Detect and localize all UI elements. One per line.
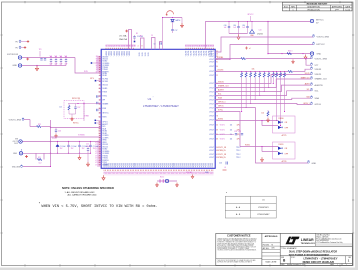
svg-text:UTRIM_8%: UTRIM_8%	[218, 157, 226, 159]
svg-text:80: 80	[99, 92, 101, 94]
svg-text:VOUT: VOUT	[209, 71, 214, 73]
svg-text:R22: R22	[38, 124, 41, 126]
svg-text:C1 10uF: C1 10uF	[60, 146, 66, 148]
svg-text:84: 84	[96, 65, 98, 67]
svg-text:79: 79	[99, 153, 101, 155]
svg-text:34: 34	[216, 66, 218, 68]
svg-text:C17: C17	[175, 30, 178, 32]
svg-text:VDD33: VDD33	[124, 51, 126, 56]
svg-text:WHEN VIN < 5.75V, SHORT INTVCC: WHEN VIN < 5.75V, SHORT INTVCC TO VIN WI…	[42, 204, 158, 208]
svg-text:VOUT: VOUT	[209, 120, 214, 122]
svg-text:84: 84	[99, 131, 101, 133]
svg-text:SHARE_CLK: SHARE_CLK	[315, 78, 328, 81]
svg-text:84: 84	[99, 124, 101, 126]
svg-text:VOUT: VOUT	[209, 154, 214, 156]
svg-text:RUN1: RUN1	[102, 75, 107, 77]
svg-text:5 1 0 2 7 5 4 6 8 3 1 9: 5 1 0 2 7 5 4 6 8 3 1 9	[106, 46, 136, 48]
svg-text:VOUT0: VOUT0	[198, 51, 200, 56]
svg-text:CUSTOMER NOTICE: CUSTOMER NOTICE	[227, 235, 251, 238]
svg-text:8: 8	[99, 75, 100, 77]
svg-text:C26: C26	[58, 131, 61, 133]
svg-text:1uF: 1uF	[233, 27, 236, 29]
svg-text:C1 10uF: C1 10uF	[71, 146, 77, 148]
svg-text:VOUT0: VOUT0	[186, 51, 188, 56]
svg-text:REVISION HISTORY: REVISION HISTORY	[307, 4, 328, 6]
svg-text:93: 93	[96, 58, 98, 60]
svg-text:VOUT: VOUT	[209, 150, 214, 152]
svg-text:90: 90	[99, 117, 101, 119]
svg-text:69: 69	[216, 130, 218, 132]
svg-text:10k: 10k	[230, 130, 233, 132]
svg-text:1uF: 1uF	[224, 27, 227, 29]
svg-text:VDD33: VDD33	[129, 51, 131, 56]
svg-text:83: 83	[99, 128, 101, 130]
svg-text:TP1: TP1	[15, 47, 18, 49]
svg-text:C1 10uF: C1 10uF	[93, 146, 99, 148]
svg-text:C15: C15	[59, 107, 62, 109]
svg-text:*: *	[39, 202, 41, 206]
svg-text:91: 91	[216, 62, 218, 64]
svg-text:10k: 10k	[261, 113, 264, 115]
svg-text:10k: 10k	[230, 139, 233, 141]
svg-text:VDD33: VDD33	[218, 70, 224, 72]
svg-text:63: 63	[99, 79, 101, 81]
svg-text:8: 8	[142, 46, 143, 48]
svg-text:SGND: SGND	[102, 88, 108, 90]
svg-text:VOUT1_SNS: VOUT1_SNS	[315, 58, 328, 60]
svg-text:SCL: SCL	[218, 94, 222, 96]
svg-text:GPIO1: GPIO1	[218, 106, 224, 108]
svg-text:APPROVED: APPROVED	[332, 5, 343, 8]
svg-text:A TP5: A TP5	[282, 134, 287, 137]
svg-text:VDD25: VDD25	[102, 85, 108, 87]
svg-text:Fax: (408)434-0507: Fax: (408)434-0507	[316, 240, 329, 242]
svg-text:GND_SNS: GND_SNS	[12, 166, 21, 168]
svg-text:RCFG1: RCFG1	[102, 81, 108, 83]
svg-text:21: 21	[99, 88, 101, 90]
svg-text:VDD33: VDD33	[121, 51, 123, 56]
svg-text:C40: C40	[242, 25, 245, 27]
svg-text:60: 60	[99, 58, 101, 60]
svg-text:ALERTB: ALERTB	[315, 84, 324, 87]
svg-text:U1: U1	[148, 97, 152, 101]
svg-text:17: 17	[99, 100, 101, 102]
svg-text:VDD33: VDD33	[116, 51, 118, 56]
svg-text:35V: 35V	[71, 148, 74, 150]
svg-text:GND: GND	[13, 153, 18, 155]
svg-text:VOUT: VOUT	[209, 116, 214, 118]
svg-text:90: 90	[99, 122, 101, 124]
svg-text:a2: a2	[249, 48, 251, 50]
svg-text:VDD33: VDD33	[315, 69, 323, 71]
svg-text:VOUT: VOUT	[209, 147, 214, 149]
svg-text:LINEAR: LINEAR	[301, 238, 314, 242]
svg-text:IC NO.: IC NO.	[291, 257, 296, 259]
svg-text:VOUT: VOUT	[209, 134, 214, 136]
svg-text:R5: R5	[136, 33, 138, 35]
svg-text:R5A C5A: R5A C5A	[119, 38, 127, 41]
svg-text:23: 23	[216, 54, 218, 56]
svg-text:ECO: ECO	[284, 6, 288, 8]
svg-text:C40: C40	[233, 25, 236, 27]
svg-text:68: 68	[216, 139, 218, 141]
svg-text:VOUT: VOUT	[209, 139, 214, 141]
svg-text:VOSNS0: VOSNS0	[78, 135, 85, 137]
svg-text:R8* 0: R8* 0	[90, 78, 94, 80]
svg-text:VTRIM: VTRIM	[84, 116, 89, 118]
svg-text:VOUT1: VOUT1	[220, 139, 225, 141]
svg-text:VDD33: VDD33	[127, 51, 129, 56]
svg-text:VDD25: VDD25	[305, 73, 310, 75]
svg-text:A - B: A - B	[236, 213, 241, 216]
svg-text:R40 0: R40 0	[288, 50, 292, 52]
svg-text:TECHNOLOGY: TECHNOLOGY	[301, 243, 316, 245]
svg-text:47: 47	[99, 146, 101, 148]
svg-text:SHARE_CLK: SHARE_CLK	[218, 85, 229, 88]
svg-text:VOUT: VOUT	[209, 87, 214, 89]
svg-text:UTRIM_8%: UTRIM_8%	[218, 150, 226, 152]
svg-text:LTC 35A: LTC 35A	[119, 35, 127, 38]
svg-text:DWL: DWL	[272, 248, 275, 250]
svg-text:SHARE: SHARE	[102, 103, 109, 106]
svg-text:VDD33: VDD33	[114, 51, 116, 56]
svg-text:VDD33: VDD33	[109, 51, 111, 56]
svg-text:LTM4676AEY: LTM4676AEY	[257, 213, 270, 216]
svg-text:51: 51	[99, 56, 101, 58]
svg-text:VOUT: VOUT	[209, 130, 214, 132]
svg-text:C26: C26	[219, 163, 222, 165]
svg-text:1. ALL RESISTORS ARE 0402.: 1. ALL RESISTORS ARE 0402.	[65, 191, 96, 194]
svg-text:VOUT1: VOUT1	[220, 130, 225, 132]
svg-text:VOUT0_SNS: VOUT0_SNS	[9, 119, 22, 121]
svg-text:*: *	[226, 191, 227, 195]
svg-text:49: 49	[99, 160, 101, 162]
svg-text:56: 56	[99, 65, 101, 67]
svg-text:SCL: SCL	[307, 89, 310, 91]
svg-text:1uF: 1uF	[242, 27, 245, 29]
svg-text:NOTE: UNLESS OTHERWISE SPECIFI: NOTE: UNLESS OTHERWISE SPECIFIED	[62, 186, 114, 190]
svg-text:C7: C7	[65, 55, 67, 57]
svg-text:C22: C22	[86, 144, 89, 146]
svg-text:INTVCC: INTVCC	[316, 20, 324, 22]
svg-text:VDD25: VDD25	[315, 74, 323, 76]
svg-text:63: 63	[99, 149, 101, 151]
svg-text:Monday, December 01, 2014: Monday, December 01, 2014	[287, 264, 305, 266]
svg-text:VOUT: VOUT	[209, 157, 214, 159]
svg-text:*: *	[153, 97, 154, 99]
svg-text:OF: OF	[341, 264, 343, 266]
svg-text:A TP6: A TP6	[282, 160, 287, 163]
svg-text:SYNC: SYNC	[102, 96, 107, 98]
svg-text:VOUT0_SNS: VOUT0_SNS	[317, 37, 330, 39]
svg-text:37: 37	[99, 69, 101, 71]
svg-text:VOUT0: VOUT0	[191, 51, 193, 56]
svg-text:74: 74	[96, 67, 98, 69]
svg-text:C8: C8	[154, 44, 156, 46]
svg-text:VDD33: VDD33	[119, 51, 121, 56]
svg-text:81: 81	[99, 162, 101, 164]
svg-text:82: 82	[99, 104, 101, 106]
svg-text:14: 14	[96, 69, 98, 71]
svg-text:60: 60	[99, 133, 101, 135]
svg-text:83: 83	[99, 158, 101, 160]
svg-text:VOUT0: VOUT0	[188, 51, 190, 56]
svg-text:C44: C44	[259, 30, 262, 32]
svg-text:FSW: FSW	[102, 108, 106, 110]
svg-text:APPROVALS: APPROVALS	[265, 235, 278, 238]
svg-text:GPIO0_1: GPIO0_1	[218, 102, 226, 104]
svg-text:19: 19	[96, 61, 98, 63]
svg-text:R25 0: R25 0	[160, 177, 164, 179]
svg-text:VOUT: VOUT	[209, 56, 214, 58]
svg-text:97: 97	[99, 164, 101, 166]
svg-text:VOUT0: VOUT0	[203, 51, 205, 56]
svg-text:C40: C40	[224, 25, 227, 27]
svg-text:10k: 10k	[252, 69, 255, 71]
svg-text:26.5V: 26.5V	[14, 143, 18, 145]
svg-text:ALERT: ALERT	[218, 89, 225, 92]
svg-text:5 1 0 2 7 5 4 6 8 3 1 9 2: 5 1 0 2 7 5 4 6 8 3 1 9 2	[185, 46, 214, 48]
svg-text:17: 17	[99, 67, 101, 69]
svg-text:16: 16	[99, 61, 101, 63]
svg-text:C9: C9	[151, 35, 153, 37]
svg-text:LTM4676EY: LTM4676EY	[258, 207, 270, 209]
svg-text:C1-C4: C1-C4	[52, 138, 57, 140]
svg-text:VOUT: VOUT	[209, 75, 214, 77]
svg-text:50: 50	[216, 125, 218, 127]
svg-text:PRODUCTION: PRODUCTION	[307, 9, 320, 11]
svg-text:VOUT1: VOUT1	[220, 125, 225, 127]
svg-text:GPIO0_1: GPIO0_1	[303, 103, 309, 105]
svg-text:40: 40	[99, 85, 101, 87]
svg-text:Phone: (408)432-1900 www.line: Phone: (408)432-1900 www.linear.com	[316, 238, 342, 240]
svg-text:RUN0: RUN0	[218, 119, 223, 121]
svg-text:DATE: DATE	[345, 5, 350, 8]
svg-text:EXTVDD33: EXTVDD33	[7, 54, 19, 56]
svg-text:VOUT0: VOUT0	[193, 51, 195, 56]
svg-text:27: 27	[99, 144, 101, 146]
svg-text:VOUT1_SN: VOUT1_SN	[218, 147, 226, 149]
svg-text:VOUT: VOUT	[209, 112, 214, 114]
svg-text:VOUT1_SN: VOUT1_SN	[218, 154, 226, 156]
svg-text:50.2: 50.2	[39, 162, 42, 164]
svg-text:VDD33: VDD33	[111, 51, 113, 56]
svg-text:VOUT: VOUT	[209, 91, 214, 93]
svg-text:VOUT: VOUT	[209, 62, 214, 64]
svg-text:VOUT: VOUT	[209, 108, 214, 110]
svg-text:C28 C29: C28 C29	[234, 131, 241, 133]
svg-text:VOUT: VOUT	[209, 125, 214, 127]
svg-text:GPIO0: GPIO0	[315, 104, 322, 106]
svg-text:VDD25: VDD25	[218, 82, 224, 84]
svg-text:R21: R21	[38, 157, 41, 159]
svg-text:SDA: SDA	[315, 97, 320, 100]
svg-text:38: 38	[99, 113, 101, 115]
svg-text:VOUT0: VOUT0	[201, 51, 203, 56]
svg-text:C7: C7	[50, 55, 52, 57]
svg-text:SYNC: SYNC	[218, 110, 224, 112]
svg-text:97: 97	[216, 112, 218, 114]
svg-text:25: 25	[99, 155, 101, 157]
svg-text:VOUT: VOUT	[209, 59, 214, 61]
svg-text:RUN0: RUN0	[279, 118, 284, 120]
svg-text:EXTVCC: EXTVCC	[317, 44, 326, 46]
svg-text:C7: C7	[60, 55, 62, 57]
svg-text:35V: 35V	[93, 148, 96, 150]
svg-text:35V: 35V	[82, 148, 85, 150]
svg-text:VOUT: VOUT	[209, 99, 214, 101]
svg-text:PCB DES.: PCB DES.	[263, 245, 270, 247]
svg-text:R6: R6	[140, 36, 142, 38]
svg-text:1: 1	[293, 9, 294, 11]
svg-text:DUAL STEP-DOWN uMODULE REGULAT: DUAL STEP-DOWN uMODULE REGULATOR	[289, 251, 337, 254]
svg-text:C7: C7	[55, 55, 57, 57]
svg-text:R17: R17	[78, 107, 81, 109]
svg-text:LTC E4: LTC E4	[257, 33, 263, 35]
svg-text:VOUT: VOUT	[209, 103, 214, 105]
svg-text:INTVCC(R): INTVCC(R)	[72, 98, 81, 100]
svg-text:SHEET: SHEET	[330, 264, 335, 266]
svg-text:TP3: TP3	[39, 49, 42, 51]
svg-text:INTVCC: INTVCC	[102, 113, 109, 115]
svg-text:INTVCC: INTVCC	[73, 122, 80, 124]
svg-text:RUN1: RUN1	[279, 144, 284, 146]
svg-text:4.5V TO: 4.5V TO	[12, 141, 18, 143]
svg-text:35V: 35V	[60, 148, 63, 150]
svg-text:GND: GND	[12, 65, 17, 67]
svg-text:GND: GND	[317, 53, 322, 55]
svg-text:TITLE: SCHEMATIC: TITLE: SCHEMATIC	[281, 247, 297, 250]
svg-text:C1 10uF: C1 10uF	[82, 146, 88, 148]
svg-text:10k: 10k	[230, 125, 233, 127]
svg-text:VOUT0: VOUT0	[206, 51, 208, 56]
svg-text:VOUT0: VOUT0	[196, 51, 198, 56]
svg-text:LTM4676EY / LTM4676AEY: LTM4676EY / LTM4676AEY	[143, 104, 179, 108]
svg-text:38: 38	[99, 137, 101, 139]
svg-text:78: 78	[216, 116, 218, 118]
svg-text:VOUT: VOUT	[209, 95, 214, 97]
svg-text:GND: GND	[312, 163, 317, 165]
svg-text:29: 29	[96, 56, 98, 58]
svg-text:RUN1: RUN1	[245, 145, 250, 147]
svg-text:12-14: 12-14	[345, 9, 350, 11]
svg-text:A - A: A - A	[236, 206, 241, 209]
svg-text:ALL CAPACITORS ARE 0402.: ALL CAPACITORS ARE 0402.	[68, 194, 98, 197]
svg-text:18: 18	[99, 81, 101, 83]
svg-text:VOUT: VOUT	[209, 66, 214, 68]
svg-text:22: 22	[216, 75, 218, 77]
svg-text:28: 28	[99, 151, 101, 153]
svg-text:DESCRIPTION: DESCRIPTION	[307, 6, 320, 8]
svg-text:4: 4	[138, 46, 139, 48]
svg-text:TP1: TP1	[15, 41, 18, 43]
svg-text:81: 81	[99, 142, 101, 144]
svg-text:INTVCC: INTVCC	[247, 14, 254, 16]
svg-text:VOUT: VOUT	[209, 83, 214, 85]
svg-text:VDD33: VDD33	[106, 51, 108, 56]
